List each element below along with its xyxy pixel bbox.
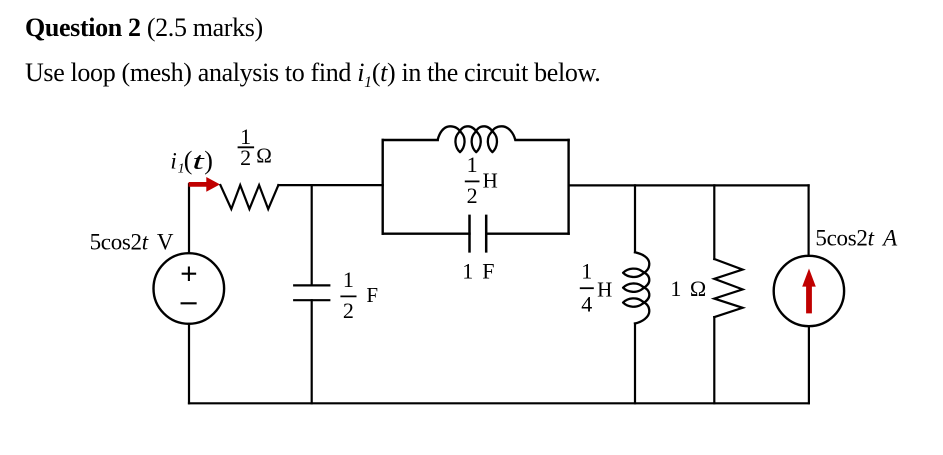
V1 plus sign [183,268,195,280]
heading line 2 [25,58,600,92]
wire: capacitor C1 branch upper [311,185,313,285]
inductor L2 1/4 H coil [623,252,649,323]
wire: resistor R2 branch upper [713,185,715,259]
wire: inductor L2 branch upper [634,185,636,252]
wire: inductor L2 branch lower [634,324,636,404]
LC box right edge wire [567,140,569,234]
svg-text:F: F [366,283,378,307]
resistor R2 1 ohm zigzag [714,259,742,317]
svg-text:5cos2t V: 5cos2t V [90,229,174,254]
svg-text:4: 4 [581,291,592,316]
LC box top edge wires to inductor L1 [383,139,569,141]
wire: current source upper [807,185,809,256]
V1 minus sign [182,302,196,304]
wire: bottom rail [189,402,809,404]
wire: voltage source minus terminal to bottom rail [188,324,190,404]
svg-text:i: i [170,148,176,173]
resistor R1 1/2 ohm zigzag [220,185,278,209]
current source I1 circle [774,256,844,326]
svg-text:Ω: Ω [256,143,272,167]
LC box left edge wire [382,140,384,234]
wire: capacitor C1 branch lower [311,300,313,403]
wire: resistor R2 branch lower [713,317,715,403]
svg-text:1 F: 1 F [462,259,494,284]
svg-text:1 Ω: 1 Ω [670,276,706,301]
svg-text:2: 2 [467,183,478,208]
svg-text:2: 2 [240,145,251,170]
LC box bottom edge wires to capacitor C2 [383,232,569,234]
svg-text:1: 1 [343,267,354,292]
svg-text:(: ( [184,146,193,175]
I1 red up arrow [802,269,816,314]
svg-text:): ) [204,146,213,175]
voltage source V1 circle [154,253,225,324]
capacitor C1 plates [294,285,329,300]
wire: node A vertical from voltage source plus terminal [188,184,190,253]
svg-text:1: 1 [581,259,592,284]
wire: R1 to LC box left edge [278,184,382,186]
heading line 1 [25,13,263,43]
capacitor C2 1F plates [470,216,487,252]
svg-text:1: 1 [467,152,478,177]
inductor L1 1/2 H coil [438,126,516,152]
wire: node C rail from box to current source corner [569,184,809,186]
svg-text:2: 2 [343,298,354,323]
wire: current source lower [808,326,810,403]
svg-text:H: H [483,169,498,193]
current arrow i1(t) red [189,177,220,192]
svg-text:5cos2t A: 5cos2t A [815,225,898,250]
svg-text:H: H [597,277,612,301]
